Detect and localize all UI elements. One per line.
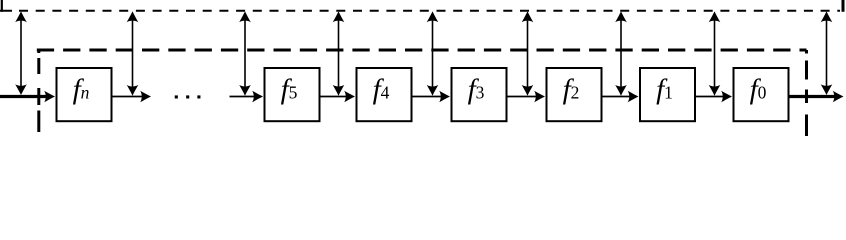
inner thick dashed box: right edge (805, 50, 808, 137)
wire: segment f_1 (602, 96, 631, 98)
box f_3 (452, 68, 507, 121)
box f_0 (734, 68, 789, 121)
wire: bold output line (789, 95, 835, 98)
wire: segment f_0 (695, 96, 724, 98)
box f_4 (357, 68, 412, 121)
arrowhead output (833, 91, 844, 103)
double-headed arrow V4 (333, 11, 345, 95)
arrowhead into box f_n (44, 91, 55, 103)
arrowhead into box f_2 (534, 91, 545, 103)
outer dashed box: left edge stub (1, 0, 3, 12)
arrowhead after f_n (140, 91, 151, 103)
box f_n (57, 68, 112, 121)
wire: segment into f_5 (230, 96, 255, 98)
arrowhead into box f_3 (439, 91, 450, 103)
outer dashed box: right edge stub (842, 0, 845, 12)
wire: segment f_3 (412, 96, 442, 98)
inner thick dashed box: left edge (37, 50, 40, 136)
arrowhead into box f_1 (628, 91, 639, 103)
arrowhead into box f_4 (344, 91, 355, 103)
box f_5 (265, 68, 320, 121)
double-headed arrow V2 (127, 11, 139, 95)
double-headed arrow V7 (615, 11, 627, 95)
arrowhead into box f_5 (252, 91, 263, 103)
wire: segment f_4 (320, 96, 347, 98)
inner thick dashed box: top edge (37, 49, 807, 52)
wire: segment f_2 (507, 96, 537, 98)
wire: f_n output segment (112, 96, 143, 98)
ellipsis dots (175, 95, 201, 98)
double-headed arrow V5 (427, 11, 439, 95)
box f_1 (640, 68, 695, 121)
double-headed arrow V3 (239, 11, 251, 95)
double-headed arrow V1 (15, 11, 27, 95)
double-headed arrow V9 (821, 11, 833, 95)
outer dashed box: top edge (fine dashed line) (0, 10, 840, 12)
wire: bold input line (0, 95, 47, 98)
double-headed arrow V6 (522, 11, 534, 95)
box f_2 (547, 68, 602, 121)
double-headed arrow V8 (709, 11, 721, 95)
arrowhead into box f_0 (721, 91, 732, 103)
